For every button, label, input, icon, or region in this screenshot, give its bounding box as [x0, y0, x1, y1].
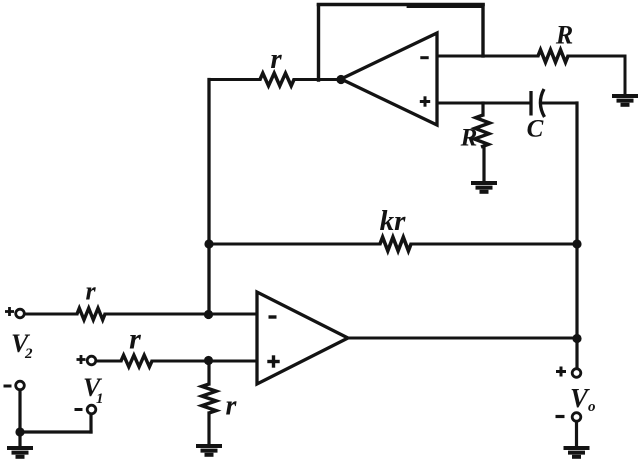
wire U1 output to resistor r	[294, 78, 341, 81]
node A junction dot at U1 output	[336, 75, 345, 84]
svg-text:r: r	[270, 43, 282, 75]
op-amp U2 (bottom)	[257, 292, 348, 384]
wire right column lower segment	[575, 244, 578, 338]
svg-text:1: 1	[96, 391, 104, 407]
label + of V2 positive terminal	[5, 307, 14, 316]
label V1	[83, 373, 104, 407]
svg-text:R: R	[555, 21, 573, 50]
wire feedback down to U1 inverting input	[481, 5, 484, 56]
wire V2- terminal down	[18, 390, 21, 432]
op-amp U1 (top, output on left)	[341, 33, 437, 125]
wire resistor r to node D	[105, 313, 209, 316]
wire node D to U2 inverting input	[209, 313, 257, 316]
wire U2 output to node G	[348, 337, 577, 340]
wire resistor r to ground	[207, 413, 210, 444]
wire down to ground (top right)	[624, 56, 627, 94]
svg-text:r: r	[226, 391, 238, 422]
label - of Vo negative terminal	[556, 415, 565, 418]
wire capacitor to right column	[541, 102, 577, 105]
node F junction dot at V2- ground	[15, 427, 24, 436]
svg-text:C: C	[527, 116, 544, 143]
label V2	[11, 329, 33, 362]
svg-text:R: R	[460, 125, 478, 152]
svg-text:2: 2	[24, 346, 33, 362]
wire V1+ terminal to resistor r	[96, 360, 121, 363]
terminal circle V2 -	[16, 381, 25, 390]
wire U1 non-inverting input to capacitor	[437, 102, 530, 105]
resistor r (U1 feedback input)	[260, 73, 294, 86]
terminal circle V1 +	[87, 356, 96, 365]
resistor kr	[380, 237, 411, 251]
wire V1- branch up to terminal	[89, 414, 92, 432]
ground (top right)	[612, 96, 638, 105]
wire node F to V1- branch	[20, 430, 91, 433]
wire U1 inverting input to resistor R	[437, 55, 538, 58]
node D junction dot on U2 inverting input	[204, 310, 213, 319]
terminal circle V1 -	[87, 405, 96, 414]
wire node B to resistor kr	[209, 243, 380, 246]
junction of vertical R on non-inverting net	[481, 103, 484, 115]
node C junction dot right of kr	[572, 239, 581, 248]
wire vertical R to ground	[482, 147, 485, 181]
wire resistor r to left column corner	[209, 78, 260, 81]
ground (below Vo)	[564, 448, 590, 457]
terminal circle Vo +	[572, 369, 581, 378]
svg-text:kr: kr	[380, 205, 407, 237]
svg-text:r: r	[85, 277, 96, 306]
capacitor C	[531, 89, 545, 117]
svg-text:o: o	[588, 399, 596, 415]
wire resistor kr to node C	[411, 243, 577, 246]
wire right column upper segment	[575, 103, 578, 244]
wire node E to U2 non-inverting input	[209, 360, 257, 363]
terminal circle V2 +	[16, 309, 25, 318]
svg-text:V: V	[570, 383, 590, 413]
ground (below vertical R)	[471, 183, 497, 192]
wire Vo- terminal to ground	[575, 422, 578, 447]
label + of Vo positive terminal	[556, 367, 566, 377]
label R of vertical resistor	[460, 125, 478, 152]
label r of grounding resistor	[226, 391, 238, 422]
node G junction dot at U2 output	[572, 334, 581, 343]
label r of U1 input resistor	[270, 43, 282, 75]
resistor R (U1 inverting to ground)	[538, 50, 568, 63]
label r of V2 input resistor	[85, 277, 96, 306]
wire top feedback horizontal	[319, 5, 484, 7]
wire node G down to Vo+ terminal	[575, 338, 578, 369]
label R of grounding resistor	[555, 21, 573, 50]
label Vo	[570, 383, 596, 415]
label kr	[380, 205, 407, 237]
resistor R (U1 non-inverting to ground)	[474, 115, 489, 147]
label - of V2 negative terminal	[4, 385, 12, 388]
wire resistor R to right corner	[568, 55, 625, 58]
node E junction dot on U2 non-inverting input	[204, 356, 213, 365]
label r of V1 input resistor	[129, 323, 141, 356]
resistor r (V2 input)	[77, 308, 105, 320]
resistor r (V1 input)	[121, 355, 152, 367]
ground (below V2/V1 junction)	[7, 448, 33, 457]
wire resistor r to node E	[152, 360, 209, 363]
resistor r (U2 non-inverting to ground)	[202, 384, 216, 413]
node B junction dot left of kr	[204, 239, 213, 248]
ground (below resistor r)	[196, 446, 222, 455]
label + of V1 positive terminal	[77, 355, 86, 364]
svg-text:r: r	[129, 323, 141, 356]
wire node F to ground	[18, 432, 21, 446]
wire left column	[207, 80, 210, 315]
wire node E down to resistor r	[207, 361, 210, 384]
label - of V1 negative terminal	[75, 408, 83, 411]
terminal circle Vo -	[572, 413, 581, 422]
wire U1 output up-segment of feedback loop	[317, 5, 320, 80]
label C	[527, 116, 544, 143]
wire V2+ terminal to resistor r	[25, 313, 78, 316]
